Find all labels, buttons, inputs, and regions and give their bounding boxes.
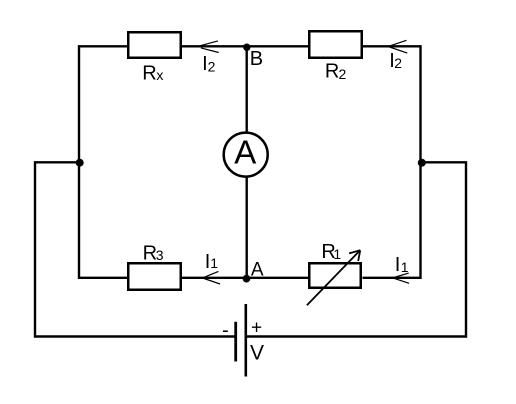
wire left outer loop (junction to battery negative) xyxy=(35,162,235,336)
svg-text:-: - xyxy=(222,319,229,341)
node A dot xyxy=(243,275,251,283)
resistor Rx xyxy=(128,32,181,58)
svg-text:+: + xyxy=(251,318,262,339)
svg-text:1: 1 xyxy=(333,246,341,262)
variable resistor arrow through R1 xyxy=(307,250,360,305)
wire top middle segment (Rx to R2 through node B) xyxy=(182,45,308,47)
current arrow I2 left xyxy=(199,41,218,53)
svg-text:A: A xyxy=(234,133,256,170)
wire middle vertical upper (node B to ammeter) xyxy=(245,46,247,134)
svg-text:R: R xyxy=(325,61,339,83)
svg-text:2: 2 xyxy=(339,66,347,82)
node B dot xyxy=(243,44,250,51)
svg-text:1: 1 xyxy=(210,255,218,271)
current arrow I2 right xyxy=(389,40,407,53)
wire middle vertical lower (ammeter to node A) xyxy=(245,176,247,278)
resistor R1 (variable) xyxy=(309,263,361,288)
svg-text:B: B xyxy=(250,48,263,70)
svg-text:2: 2 xyxy=(394,55,402,71)
battery V negative plate (short) xyxy=(234,322,237,362)
wire right outer loop (junction to battery positive) xyxy=(247,162,466,336)
svg-text:2: 2 xyxy=(208,59,216,75)
junction dot right xyxy=(418,159,426,167)
current arrow I1 left xyxy=(203,271,220,284)
junction dot left xyxy=(76,159,84,167)
battery V positive plate (long) xyxy=(245,304,248,377)
svg-text:R: R xyxy=(142,63,156,85)
svg-text:I: I xyxy=(395,254,401,276)
ammeter U1 circle xyxy=(224,133,268,177)
resistor R2 xyxy=(309,31,362,58)
wire bottom middle segment (R3 to R1 through node A) xyxy=(182,277,308,279)
svg-text:A: A xyxy=(251,259,264,280)
current arrow I1 right xyxy=(394,273,409,283)
svg-text:1: 1 xyxy=(401,259,409,275)
svg-text:x: x xyxy=(156,67,163,83)
svg-text:3: 3 xyxy=(156,247,164,263)
wire right bridge loop (top-right corner, right vertical, bottom-right corner) xyxy=(363,46,421,277)
resistor R3 xyxy=(128,263,181,290)
wire left bridge loop (top-left corner, left vertical, bottom-left corner) xyxy=(79,46,128,277)
svg-text:V: V xyxy=(250,342,264,365)
